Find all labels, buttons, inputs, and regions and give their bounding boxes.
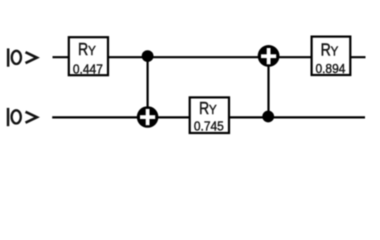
- svg-text:R: R: [199, 100, 209, 119]
- gate RY(0.745) box on q1: [190, 97, 229, 133]
- gate RY(0.447) box on q0: [69, 37, 108, 75]
- svg-text:0.447: 0.447: [73, 62, 103, 76]
- gate RY(0.894) label RY: [321, 41, 339, 60]
- gate RY(0.745) label RY: [199, 100, 217, 119]
- svg-text:0.894: 0.894: [315, 62, 345, 76]
- ket |0> label q0: [7, 48, 37, 66]
- CNOT2 control dot on q1: [262, 111, 274, 123]
- svg-text:R: R: [78, 41, 88, 60]
- CNOT1 control dot on q0: [142, 50, 154, 62]
- gate RY(0.447) label RY: [78, 41, 96, 60]
- wire CNOT1 vertical connector: [147, 57, 149, 117]
- svg-text:Y: Y: [331, 44, 340, 59]
- svg-text:0.745: 0.745: [194, 120, 224, 134]
- wire CNOT2 vertical connector: [267, 57, 269, 117]
- CNOT1 target circle on q1: [137, 106, 159, 128]
- CNOT1 target plus: [140, 109, 155, 125]
- svg-text:R: R: [321, 41, 331, 60]
- CNOT2 target circle on q0: [258, 45, 280, 67]
- CNOT2 target plus: [261, 48, 276, 64]
- qubit wire q1 (bottom): [52, 116, 365, 118]
- qubit wire q0 (top): [53, 56, 366, 58]
- ket |0> label q1: [7, 108, 37, 126]
- svg-text:Y: Y: [209, 102, 218, 117]
- svg-text:Y: Y: [88, 43, 97, 58]
- gate RY(0.894) box on q0: [312, 37, 351, 75]
